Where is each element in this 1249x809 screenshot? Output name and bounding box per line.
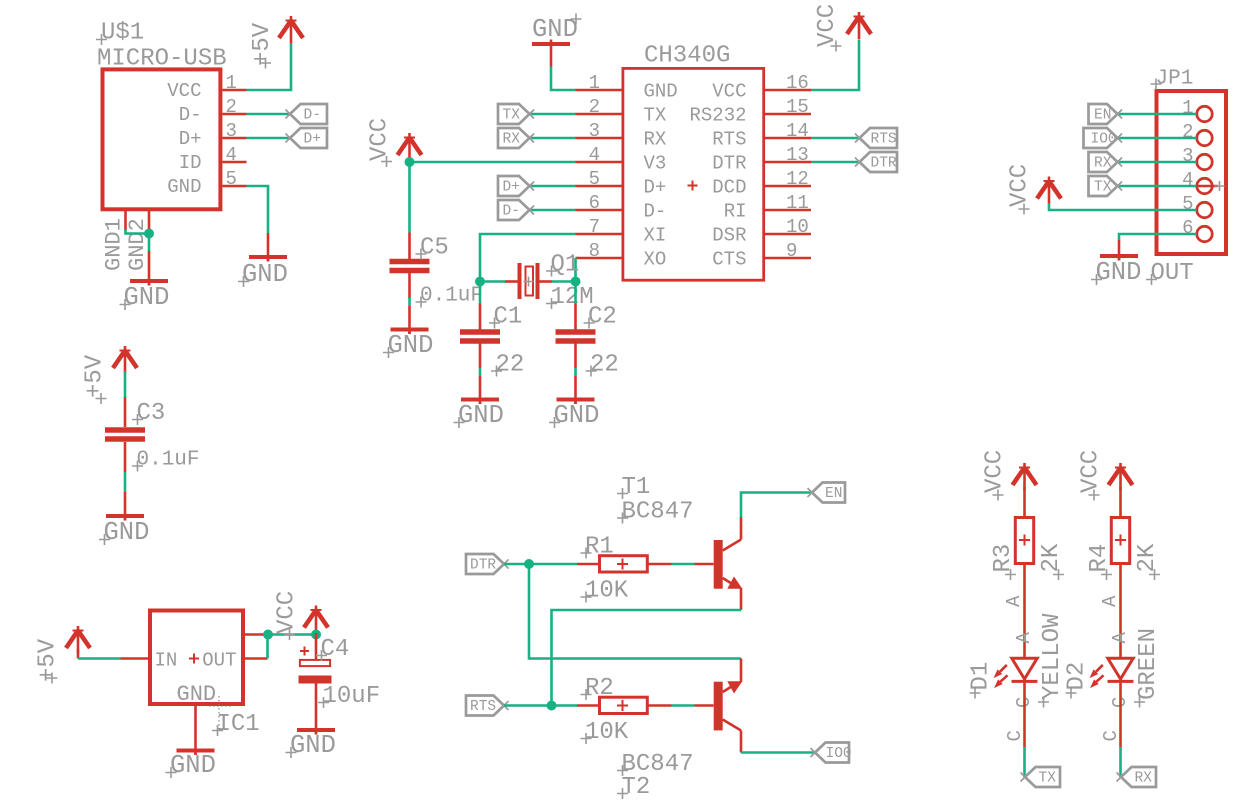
wire junction to C2 [574,282,577,304]
svg-text:A: A [1099,595,1121,607]
LED D2 emission arrows [1090,665,1104,688]
wire DTR junction to T2 emitter [529,564,741,659]
svg-text:D+: D+ [503,180,520,196]
svg-text:GND: GND [167,176,201,198]
svg-text:U$1: U$1 [101,20,144,47]
CH340G right pin stubs [764,90,811,258]
label VCC (rotated) [367,118,394,167]
wire pin5 D+ [530,185,576,188]
label BC847 (T2) [617,751,694,778]
wire pin7 XI to crystal [480,234,576,282]
label D2 (rotated) [1064,662,1091,699]
IC1 GND pin [194,704,197,755]
wire TX to JP1 pin4 [1118,185,1197,188]
svg-text:GREEN: GREEN [1135,628,1162,700]
net flag D- [286,104,328,124]
connector U$1 MICRO-USB body [103,69,221,209]
crystal Q1 [505,263,552,299]
junction node OUT [263,630,273,640]
svg-text:A: A [1003,595,1025,607]
wire DTR to R1 [504,563,577,566]
CH340G left pin names [644,81,678,271]
wire crystal right to junction [552,280,576,283]
svg-text:10uF: 10uF [323,683,381,710]
label JP1 [1151,68,1194,91]
label R4 (rotated) [1086,544,1113,580]
CH340G left pin stubs [576,90,623,258]
wire junction to C1 [479,282,482,304]
resistor R1 [577,556,672,572]
svg-text:2K: 2K [1134,543,1161,572]
LED D2 cathode pin [1119,681,1122,747]
svg-text:C3: C3 [137,400,166,427]
label GND [454,401,504,430]
svg-text:4: 4 [1182,169,1193,191]
svg-text:GND: GND [242,260,288,289]
ground GND (C3) [106,514,144,521]
wire +5V to IN [78,657,121,660]
capacitor C2 top pin [574,304,577,330]
label GND [1091,258,1141,287]
svg-text:IN: IN [155,650,178,672]
svg-text:GND1: GND1 [102,218,127,271]
net flag TX (LED) [1021,767,1061,787]
LED D2 [1108,658,1134,681]
label C2 [584,304,617,331]
CH340G left pin numbers 1-8 [589,72,600,262]
C5 bottom pin / wire / ground pin [408,273,411,298]
label GREEN (rotated) [1134,628,1162,708]
ground GND (C5) [391,328,429,335]
svg-text:TX: TX [1094,180,1112,196]
svg-text:R1: R1 [585,534,614,561]
label C4 [316,636,349,663]
wire +5V to C3 [124,371,127,397]
label C3 [132,400,165,427]
svg-text:C5: C5 [420,235,449,262]
svg-text:GND: GND [388,331,434,360]
wire pin8 XO down [574,258,577,282]
svg-text:TX: TX [644,105,667,127]
svg-text:2K: 2K [1038,543,1065,572]
label R3 (rotated) [990,544,1017,580]
JP1 pin numbers 1-6 [1182,97,1193,239]
wire pin3 RX [530,137,576,140]
net flag RTS [855,128,897,148]
svg-text:GND: GND [1096,258,1142,287]
ground stem pin [550,44,553,67]
ground GND (JP1) [1100,254,1138,261]
label VCC (rotated) [274,591,301,640]
svg-text:DTR: DTR [712,153,746,175]
svg-text:10K: 10K [585,719,629,746]
svg-text:VCC: VCC [367,118,394,161]
wire GND1/GND2 to ground + junction [126,230,150,251]
label BC847 (T1) [617,499,694,526]
ground GND (C1) [461,398,499,405]
wire EN to JP1 pin1 [1118,113,1197,116]
svg-text:IO0: IO0 [826,746,852,762]
svg-text:T1: T1 [622,474,651,501]
svg-text:DTR: DTR [470,558,496,574]
svg-text:XO: XO [644,249,667,271]
svg-text:10K: 10K [585,578,629,605]
svg-text:1: 1 [1182,97,1193,119]
svg-text:D-: D- [644,201,667,223]
wire RTS to R2 [504,704,577,707]
svg-text:DTR: DTR [871,156,897,172]
svg-text:EN: EN [825,486,842,502]
svg-text:0.1uF: 0.1uF [137,449,200,472]
svg-text:VCC: VCC [167,80,201,102]
supply VCC (JP1 pin5) [1037,177,1061,205]
svg-text:A: A [1013,632,1035,644]
capacitor C4 (polarized) [299,660,332,684]
value 2K (rotated) [1134,543,1161,580]
supply +5V (IC1) [66,626,90,654]
LED D1 [1012,658,1038,681]
+5V stem [77,649,80,659]
supply VCC (R4 column) [1109,463,1133,491]
svg-text:GND: GND [290,731,336,760]
resistor R4 [1111,487,1129,564]
wire VCC to JP1 pin5 [1049,203,1197,210]
label R2 [581,675,614,702]
wire R4 to D2 anode [1119,564,1122,659]
svg-text:C2: C2 [588,304,617,331]
svg-text:C4: C4 [321,636,350,663]
svg-text:D-: D- [179,104,202,126]
junction node RTS [547,701,557,711]
wire IO0 to JP1 pin2 [1118,137,1197,140]
wire R2 to T2 base [672,704,695,707]
label GND [166,751,216,780]
wire pin2 TX [530,113,576,116]
svg-text:BC847: BC847 [622,499,694,526]
net flag RX (LED) [1117,767,1157,787]
wire T1 emitter to RTS junction [552,610,742,706]
svg-text:OUT: OUT [202,650,236,672]
label GND [532,14,582,45]
junction node C4 [311,630,321,640]
svg-text:CH340G: CH340G [644,43,730,70]
svg-text:6: 6 [1182,217,1193,239]
label C5 [416,235,449,262]
svg-text:MICRO-USB: MICRO-USB [97,46,227,73]
capacitor C5 top pin [408,233,411,260]
label T1 [617,474,650,501]
svg-text:YELLOW: YELLOW [1039,613,1066,700]
svg-text:RI: RI [724,201,747,223]
wire VCC node to C4 [315,633,318,659]
label YELLOW (rotated) [1038,613,1066,708]
IC CH340G body [623,68,764,280]
svg-text:CTS: CTS [712,249,746,271]
JP1 pin4 origin line and cross [1197,181,1225,191]
capacitor C5 plates [390,262,430,271]
label GND [238,260,288,289]
label T2 [617,774,650,801]
svg-text:RX: RX [503,132,521,148]
label OUT [1146,260,1194,287]
net flag TX (JP1) [1089,176,1123,196]
net flag IO0 (output) [811,743,852,763]
svg-text:RX: RX [644,129,667,151]
net flag D- (CH340) [498,200,534,220]
wire pin4 V3 to VCC/C5 [410,161,576,164]
capacitor C3 top pin [124,397,127,427]
svg-text:VCC: VCC [274,591,301,634]
ground GND (C2) [557,398,595,405]
label IC1 [212,711,260,738]
wire R3 to D1 anode [1023,564,1026,659]
svg-text:C: C [1100,730,1122,741]
svg-text:+5V: +5V [82,354,109,398]
CH340G right pin numbers 16-9 [786,72,809,262]
label +5V (rotated) [82,354,109,404]
label GND [99,518,149,547]
svg-text:D+: D+ [179,128,202,150]
wire T2 collector to IO0 [741,751,815,754]
value 0.1uF [132,449,200,472]
svg-text:GND: GND [170,751,216,780]
label GND [383,331,433,360]
label VCC (rotated) [982,450,1009,501]
wire RX to JP1 pin3 [1118,161,1197,164]
U$1 right pin stubs 1-5 [222,90,246,186]
value 2K (rotated) [1038,543,1065,580]
wire VCC pin1 to +5V [247,43,292,90]
label C1 [489,304,522,331]
ground GND (CH340 pin1, flipped) [532,40,570,47]
resistor R2 [577,697,672,713]
svg-text:XI: XI [644,225,667,247]
upper right pin stub [243,633,266,636]
value 22 [491,352,524,379]
U$1 pin numbers 1-5 [226,72,237,190]
label +5V (rotated) [249,22,276,68]
net flag DTR (input) [466,554,509,574]
wire JP1 pin6 to ground [1119,234,1197,240]
svg-text:D-: D- [304,108,321,124]
label GND [286,731,336,760]
svg-text:+5V: +5V [249,22,276,66]
wire pin6 D- [530,209,576,212]
value 10K [581,578,629,605]
svg-text:RX: RX [1094,156,1112,172]
wire pin13 to DTR [811,161,860,164]
svg-text:0.1uF: 0.1uF [420,285,483,308]
smashed-origin dotted crosshair [209,696,232,730]
svg-text:RX: RX [1135,771,1153,787]
JP1 pin circles 1-6 [1197,106,1212,241]
svg-text:JP1: JP1 [1156,68,1194,91]
svg-text:R4: R4 [1086,544,1113,573]
value 0.1uF [416,285,484,308]
junction node DTR [524,559,534,569]
svg-text:VCC: VCC [712,81,746,103]
supply +5V (USB) [279,16,303,44]
net flag EN (output) [808,483,846,503]
svg-text:DSR: DSR [712,225,746,247]
wire OUT up to node [266,635,317,659]
wire VCC to pin16 [811,40,859,90]
svg-text:+5V: +5V [35,638,62,682]
svg-text:TX: TX [1039,771,1057,787]
label VCC (rotated) [814,4,842,52]
LED D1 emission arrows [994,665,1008,688]
OUT pin stub [243,657,268,660]
svg-text:D2: D2 [1064,662,1091,691]
ground GND (USB pin5) [249,255,287,262]
label Q1 [546,252,579,279]
wire junction down to C5 [408,162,411,233]
capacitor C1 plates [460,332,500,341]
svg-text:GND: GND [124,283,170,312]
value 22 [586,352,619,379]
ground pin stem [148,251,151,286]
svg-text:EN: EN [1094,108,1111,124]
wire R1 to T1 base [672,563,695,566]
svg-text:R3: R3 [990,544,1017,573]
svg-text:VCC: VCC [814,4,841,47]
value 12M [546,284,594,311]
C4 bottom pin to ground [315,684,318,735]
svg-text:RTS: RTS [871,132,897,148]
svg-text:GND2: GND2 [125,218,150,271]
net flag RX [498,128,534,148]
ground GND (IC1) [177,749,215,756]
connector JP1 body [1157,91,1227,254]
capacitor C3 bottom pin / wire to ground [124,442,127,472]
C1 bottom pin / wire / ground pin [479,344,482,369]
supply VCC (R3 column) [1013,463,1037,491]
svg-text:VCC: VCC [1007,164,1034,207]
svg-text:C1: C1 [494,304,523,331]
wire pin2 to flag D- [247,113,291,116]
svg-text:GND: GND [458,401,504,430]
svg-text:D1: D1 [968,662,995,691]
wire pin3 to flag D+ [247,137,291,140]
regulator IC1 body [150,611,243,705]
supply +5V (C3) [113,346,137,374]
net flag RTS (input) [466,696,509,716]
junction node GND1/GND2 [144,229,154,239]
label D1 (rotated) [968,662,995,699]
svg-text:T2: T2 [622,774,651,801]
CH340G origin cross [688,181,698,191]
label U$1 [96,20,144,47]
ground GND (C4) [297,728,335,735]
svg-text:D+: D+ [644,177,667,199]
svg-text:RTS: RTS [712,129,746,151]
net flag DTR [855,152,897,172]
net flag EN (JP1) [1089,104,1123,124]
supply VCC (V3) [398,133,422,161]
label VCC (rotated) [1078,450,1105,501]
svg-text:V3: V3 [644,153,667,175]
ground pin (JP1) [1118,240,1121,261]
net flag RX (JP1) [1089,152,1123,172]
transistor T1 BC847 [695,517,743,610]
junction node V3/VCC/C5 [405,157,415,167]
C2 bottom pin / wire / ground pin [574,344,577,369]
svg-text:2: 2 [1182,121,1193,143]
wire T1 collector to EN [741,493,812,518]
svg-text:IO0: IO0 [1091,132,1117,148]
label VCC (rotated) [1007,164,1034,215]
net flag D+ [286,128,328,148]
wire cathode to RX [1119,747,1122,777]
U$1 bottom pin stubs GND1 GND2 [126,210,150,231]
capacitor C1 top pin [479,304,482,330]
svg-text:D-: D- [503,204,520,220]
value 10uF [318,683,380,710]
CH340G right pin names [689,81,746,271]
label +5V (rotated) [35,638,62,683]
capacitor C4 polarity + [300,647,309,656]
wire cathode to TX [1023,747,1026,777]
label GND [120,283,170,312]
wire pin14 to RTS [811,137,860,140]
net flag TX [498,104,534,124]
GND pin (right of USB) [267,233,270,262]
svg-text:GND: GND [554,401,600,430]
svg-text:RS232: RS232 [689,105,746,127]
svg-text:3: 3 [1182,145,1193,167]
capacitor C2 plates [556,332,596,341]
svg-text:IC1: IC1 [217,711,260,738]
svg-text:C: C [1004,730,1026,741]
svg-text:22: 22 [496,352,525,379]
svg-text:Q1: Q1 [551,252,580,279]
value 10K [581,719,629,746]
svg-text:GND: GND [644,81,678,103]
transistor T2 BC847 [695,659,743,753]
junction node crystal left [475,277,485,287]
svg-text:A: A [1109,632,1131,644]
svg-text:ID: ID [179,152,202,174]
net flag D+ (CH340) [498,176,534,196]
svg-text:R2: R2 [585,675,614,702]
svg-text:VCC: VCC [982,450,1009,493]
label GND [549,401,599,430]
junction node crystal right [571,277,581,287]
IN pin stub [121,657,151,660]
svg-text:OUT: OUT [1151,260,1194,287]
IC1 origin cross (red) [189,654,199,664]
label R1 [581,534,614,561]
LED D1 cathode pin [1023,681,1026,747]
svg-text:DCD: DCD [712,177,746,199]
svg-text:VCC: VCC [1078,450,1105,493]
U$1 pin names VCC D- D+ ID GND [167,80,201,198]
wire pin5 to GND [247,186,269,233]
svg-text:TX: TX [503,108,521,124]
wire junction to crystal left [480,280,505,283]
svg-text:GND: GND [104,518,150,547]
ground GND (USB shield) [130,279,168,286]
svg-text:GND: GND [177,682,217,707]
supply VCC (CH340 pin16) [847,12,871,40]
svg-text:5: 5 [1182,193,1193,215]
svg-text:RTS: RTS [470,699,496,715]
wire ground to pin1 [551,67,576,91]
svg-text:22: 22 [590,352,619,379]
resistor R3 [1015,487,1033,564]
capacitor C3 plates [105,430,145,439]
net flag IO0 (JP1) [1084,128,1123,148]
